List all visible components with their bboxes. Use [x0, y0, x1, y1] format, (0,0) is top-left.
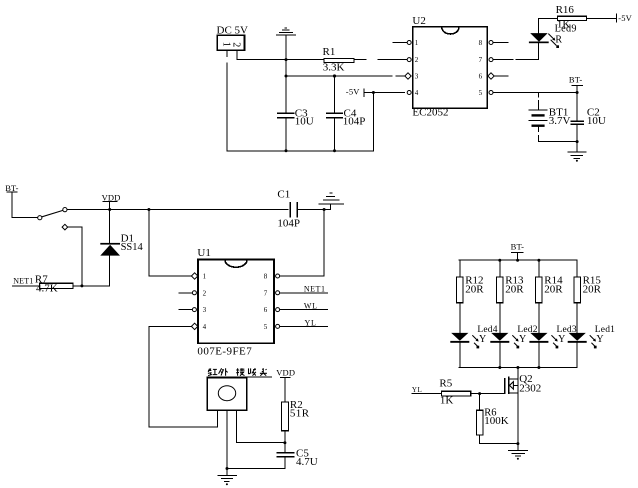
IR receiver middle pin to ground: [226, 410, 228, 475]
transistor Q2 body stub with open arrow: [510, 382, 518, 389]
transistor Q2 source stub: [509, 392, 518, 394]
junction at D1 top: [108, 208, 111, 211]
svg-text:2: 2: [230, 42, 241, 47]
svg-text:4: 4: [203, 323, 207, 331]
capacitor C3 plates: [277, 113, 295, 118]
junction at C2 bottom node: [576, 140, 579, 143]
svg-text:4: 4: [415, 89, 419, 97]
wire: VDD rail from switch to C1: [67, 209, 288, 211]
svg-text:Led9: Led9: [555, 23, 577, 34]
capacitor C2 plates: [571, 121, 584, 124]
LED Led4 triangle: [451, 333, 468, 341]
wire: R16 left to LED top: [539, 18, 558, 33]
capacitor C4 plates: [326, 113, 343, 118]
U1 pin 2 stub and circle: [179, 291, 196, 295]
svg-text:3: 3: [415, 73, 419, 81]
svg-text:-5V: -5V: [346, 87, 360, 97]
junction at IR middle pin / C5 return: [226, 467, 229, 470]
junction C3 at bottom wire: [285, 149, 288, 152]
svg-text:8: 8: [264, 273, 268, 281]
U2 pin 8 circle and stub: [489, 41, 508, 45]
junction col3 at top rail: [537, 259, 540, 262]
transistor Q2 gate bar: [504, 378, 506, 394]
wire: R7 right to D1 node: [73, 285, 110, 287]
transistor Q2 channel bar: [508, 377, 510, 395]
resistor R14 body: [536, 277, 543, 303]
junction BT- at LED rail: [516, 259, 519, 262]
svg-text:U2: U2: [412, 15, 425, 27]
power port VDD at R2: [276, 368, 295, 402]
svg-text:R: R: [555, 34, 562, 45]
junction at C4 vertical / pin3 wire: [333, 74, 336, 77]
power port -5V near U2 pin4: [346, 87, 405, 97]
power port BT- above battery: [569, 75, 583, 93]
U1 pin 6 circle and stub: [276, 308, 328, 312]
svg-text:NET1: NET1: [13, 277, 33, 286]
svg-text:4.7U: 4.7U: [296, 456, 318, 468]
svg-text:7: 7: [264, 289, 268, 297]
U2 pin 1 stub and circle: [393, 41, 411, 45]
diode D1 bottom lead: [109, 256, 111, 286]
LED Led9 cathode bar: [529, 42, 549, 44]
capacitor C4 vertical wires: [334, 76, 336, 151]
LED Led1 cathode bar: [568, 341, 587, 343]
wire: LED array top rail: [459, 259, 577, 261]
U2 pin 4 circle: [407, 91, 411, 95]
U1 pin 7 circle and stub: [276, 291, 328, 295]
svg-text:20R: 20R: [505, 284, 524, 296]
wire: lower throw to R7 node: [68, 227, 82, 286]
svg-text:SS14: SS14: [121, 242, 144, 253]
resistor R6 body (vertical): [476, 410, 483, 435]
U1 pin 8 circle and wire up: [276, 274, 325, 278]
ground (inverted) at DC rail: [276, 28, 296, 59]
wire: C5 bottom to IR middle pin: [227, 457, 285, 469]
IR receiver right pin: [236, 410, 285, 443]
LED Led2 cathode bar: [490, 341, 509, 343]
svg-text:YL: YL: [305, 318, 317, 327]
ground (inverted) at C1: [319, 193, 345, 209]
svg-text:1: 1: [221, 42, 232, 47]
IC U2 body: [413, 27, 488, 109]
junction at C3 vertical / pin3 wire: [285, 75, 288, 78]
U2 pin 3 diamond: [405, 73, 411, 79]
svg-text:20R: 20R: [465, 284, 484, 296]
IR receiver module body: [207, 378, 247, 410]
svg-text:Y: Y: [479, 334, 486, 345]
wire: U1 pin1 vertical from VDD rail: [148, 210, 150, 277]
junction at BT node / pin5 wire: [576, 91, 579, 94]
power port -5V at R16: [616, 13, 632, 23]
svg-text:007E-9FE7: 007E-9FE7: [197, 346, 252, 358]
resistor R2 body (vertical): [281, 402, 288, 431]
U1 pin 5 circle and stub: [276, 324, 328, 328]
capacitor C2 top lead: [576, 93, 578, 121]
diode D1 top lead: [109, 210, 111, 244]
junction at R2 / IR pin3 node: [283, 441, 286, 444]
resistor R13 column wires: [499, 260, 501, 367]
wire: C2 bottom to ground: [576, 124, 578, 152]
LED Led2 emission arrows: [513, 336, 520, 349]
wire: NET1 stub to R7: [13, 285, 40, 287]
junction at switch branch / R7 wire: [80, 284, 83, 287]
junction at R6 top / gate wire: [478, 392, 481, 395]
ground below C2: [567, 152, 586, 162]
resistor R13 body: [497, 277, 504, 303]
LED Led9 triangle: [530, 33, 548, 42]
svg-text:6: 6: [264, 306, 268, 314]
resistor R6 top lead: [479, 394, 481, 411]
wire: C1 right to ground: [297, 209, 331, 211]
junction C4 at bottom wire: [333, 149, 336, 152]
capacitor C1 plates (vertical): [290, 202, 297, 218]
U2 pin 5 circle and wire to BT node: [489, 91, 577, 95]
resistor R15 column wires: [576, 260, 578, 367]
wire: YL stub to R5: [412, 393, 442, 395]
power port BT- above LED array: [511, 241, 525, 260]
svg-text:3.3K: 3.3K: [323, 62, 345, 74]
resistor R14 column wires: [538, 260, 540, 367]
U1 pin 4 wire and diamond: [149, 323, 198, 329]
svg-text:4.7K: 4.7K: [36, 282, 58, 294]
svg-text:2302: 2302: [519, 382, 541, 394]
svg-text:EC2052: EC2052: [412, 107, 448, 119]
wire: R1 to U2 pin2 (broken): [354, 59, 407, 61]
wire: LED array bottom rail: [459, 367, 577, 369]
battery BT1 bottom lead (broken): [538, 127, 540, 142]
svg-text:R1: R1: [323, 46, 336, 58]
power port BT- at left switch: [5, 183, 37, 218]
ground below Q2: [508, 450, 528, 459]
svg-text:7: 7: [479, 56, 483, 64]
svg-text:Y: Y: [596, 334, 603, 345]
LED Led2 triangle: [491, 333, 508, 341]
svg-text:20R: 20R: [583, 284, 602, 296]
switch S1 blade: [42, 210, 63, 216]
wire: -5V branch down: [372, 93, 374, 151]
resistor R1 body: [324, 58, 354, 62]
connector J DC5V body: [217, 35, 244, 50]
svg-text:10U: 10U: [587, 115, 606, 127]
svg-text:VDD: VDD: [276, 368, 295, 378]
ground below IR receiver: [218, 475, 238, 485]
LED Led4 cathode bar: [450, 341, 469, 343]
U2 pin 7 circle and wire to Led9 (broken): [489, 58, 539, 62]
wire: Led9 cathode down to pin7 net: [538, 43, 540, 59]
resistor R16 body: [558, 16, 587, 20]
svg-text:8: 8: [479, 39, 483, 47]
svg-text:WL: WL: [304, 302, 318, 311]
svg-text:1: 1: [415, 39, 419, 47]
U2 pin 2 circle: [407, 58, 411, 62]
power port VDD at rail: [102, 192, 121, 209]
LED Led3 triangle: [530, 333, 547, 341]
svg-text:Y: Y: [519, 334, 526, 345]
svg-text:C1: C1: [277, 189, 290, 201]
svg-text:1K: 1K: [440, 394, 454, 406]
resistor R15 body: [574, 277, 581, 303]
svg-text:2: 2: [415, 56, 419, 64]
wire: battery bottom to C2 bottom: [539, 141, 578, 143]
wire: R2 bottom to C5: [284, 431, 286, 453]
IR receiver lens circle: [218, 386, 235, 401]
svg-text:3: 3: [203, 306, 207, 314]
text 红外接收头 (drawn glyphs): [208, 368, 267, 376]
svg-text:104P: 104P: [343, 116, 366, 128]
svg-text:104P: 104P: [277, 217, 300, 229]
svg-text:R5: R5: [439, 378, 452, 390]
svg-text:5: 5: [264, 323, 268, 331]
LED Led1 emission arrows: [590, 336, 597, 349]
svg-text:6: 6: [479, 73, 483, 81]
wire: U1 pin4 vertical down and to IR receiver: [149, 326, 217, 426]
svg-text:Y: Y: [558, 334, 565, 345]
junction col2 at bottom rail: [498, 366, 501, 369]
transistor Q2 drain stub: [509, 378, 518, 380]
resistor R12 body: [457, 277, 464, 303]
svg-text:2: 2: [203, 289, 207, 297]
svg-text:U1: U1: [197, 247, 210, 259]
wire: C3 node to U2 pin3 (broken): [286, 75, 405, 77]
IC U1 body: [198, 260, 274, 344]
LED Led3 cathode bar: [529, 341, 548, 343]
svg-text:YL: YL: [412, 386, 422, 394]
resistor R7 body: [40, 283, 73, 288]
switch S1 pole contact: [38, 216, 42, 220]
LED Led1 triangle: [569, 333, 586, 341]
underline of 红外接收头: [207, 376, 271, 378]
svg-text:51R: 51R: [290, 407, 310, 419]
wire: DC pin1 down (broken): [226, 50, 228, 151]
junction at DC rail / ground vertical: [285, 58, 288, 61]
svg-text:-5V: -5V: [618, 13, 632, 23]
resistor R5 body: [442, 391, 471, 396]
svg-text:100K: 100K: [484, 415, 509, 427]
svg-text:10U: 10U: [295, 115, 314, 127]
wire: R5 to Q2 gate: [471, 393, 505, 395]
battery BT1 plates: [529, 110, 547, 127]
LED Led9 emission arrows with square tip: [549, 34, 559, 48]
diode D1 triangle (pointing up): [100, 245, 120, 256]
capacitor C5 plates: [277, 453, 295, 457]
transistor Q2 drain/source vertical: [517, 368, 519, 451]
junction at U1 pin1 branch: [147, 208, 150, 211]
capacitor C3 vertical wires: [285, 60, 287, 151]
wire: R16 right to -5V port: [587, 17, 617, 19]
svg-text:R16: R16: [556, 4, 575, 16]
svg-text:5: 5: [479, 89, 483, 97]
battery BT1 top lead (broken): [538, 93, 540, 110]
junction at U1 pin8 branch: [323, 208, 326, 211]
junction col3 at bottom rail: [537, 366, 540, 369]
wire: DC pin2 down then right to R1: [237, 50, 324, 59]
IR receiver left pin: [216, 410, 218, 427]
junction Q2 drain at LED bottom rail: [516, 366, 519, 369]
U1 pin 3 stub and circle: [179, 308, 196, 312]
resistor R6 bottom lead to source node: [480, 435, 518, 444]
svg-text:VDD: VDD: [102, 192, 121, 202]
wire: pin8 vertical: [323, 210, 325, 277]
resistor R12 column wires: [459, 260, 461, 367]
junction at -5V branch: [372, 91, 375, 94]
svg-text:BT-: BT-: [569, 75, 583, 85]
U1 pin 1 wire and diamond: [149, 273, 198, 279]
diode D1 cathode bar: [100, 243, 120, 245]
switch S1 lower throw diamond contact: [62, 224, 68, 230]
LED Led4 emission arrows: [473, 336, 480, 349]
junction col2 at top rail: [498, 259, 501, 262]
LED Led3 emission arrows: [552, 336, 559, 349]
svg-text:1: 1: [203, 273, 207, 281]
svg-text:BT-: BT-: [511, 241, 525, 251]
svg-text:3.7V: 3.7V: [549, 115, 571, 127]
U2 pin 6 diamond and stub: [488, 73, 508, 79]
junction at Q2 source vertical / R6 return: [516, 442, 519, 445]
wire: bottom return of DC block: [227, 150, 373, 152]
svg-text:NET1: NET1: [304, 285, 326, 294]
switch S1 upper throw contact: [63, 208, 67, 212]
svg-text:20R: 20R: [544, 284, 563, 296]
